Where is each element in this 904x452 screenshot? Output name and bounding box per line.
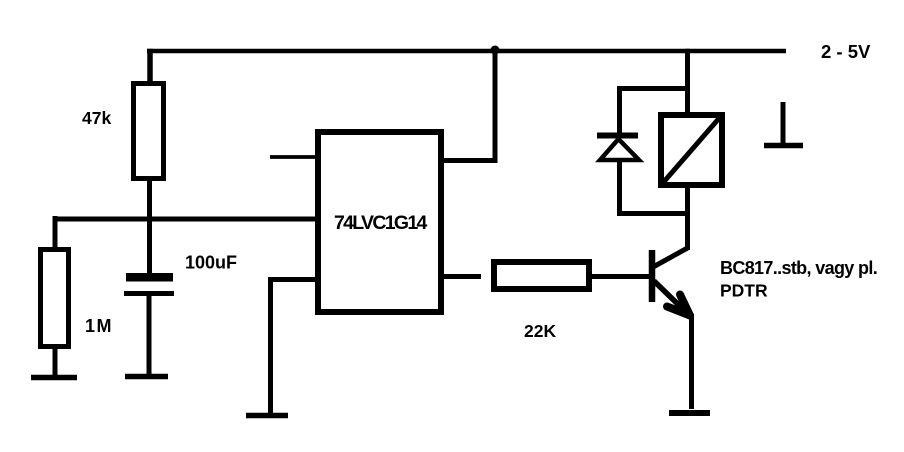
- wire: stub down to R2 top: [53, 216, 58, 250]
- net label 2 - 5V: [821, 41, 871, 62]
- wire: horizontal net from R2 top to IC pin 2: [53, 217, 316, 222]
- wire: relay K1 bottom down to Q1 collector: [685, 186, 690, 250]
- label BC817: [720, 258, 877, 301]
- wire: U1 pin 1 stub (top left): [270, 155, 316, 159]
- svg-text:1M: 1M: [85, 316, 113, 336]
- ground: below R2: [31, 375, 77, 381]
- relay K1 body with diagonal: [661, 115, 722, 185]
- transistor Q1 base bar: [649, 250, 656, 302]
- op-amp U1 74LVC1G14 body: [318, 132, 441, 312]
- ground: floating reference top right: [764, 102, 803, 146]
- capacitor C1 bottom plate: [124, 291, 174, 296]
- wire: rail down to relay K1 top: [685, 49, 690, 114]
- wire: U1 output pin (bottom right): [443, 274, 481, 279]
- svg-text:BC817..stb, vagy pl.: BC817..stb, vagy pl.: [720, 258, 877, 278]
- ground: U1 pin 3: [246, 413, 288, 419]
- wire: diode branch bottom horizontal: [617, 211, 690, 216]
- resistor R1 47k body: [134, 84, 164, 179]
- svg-text:74LVC1G14: 74LVC1G14: [334, 212, 428, 234]
- ground: below C1: [125, 374, 168, 380]
- value label 47k: [82, 108, 111, 128]
- resistor R2 1M body: [41, 250, 69, 347]
- value label 22K: [524, 321, 556, 341]
- svg-text:47k: 47k: [82, 108, 111, 128]
- wire: U1 Vcc pin (top right) up to rail: [443, 49, 495, 161]
- svg-text:2 - 5V: 2 - 5V: [821, 41, 871, 62]
- transistor Q1 emitter diagonal with arrow: [654, 281, 690, 316]
- value label 100uF: [185, 253, 237, 273]
- svg-text:100uF: 100uF: [185, 253, 237, 273]
- wire: R1 bottom down through node to capacitor top: [147, 178, 152, 275]
- wire: diode branch top horizontal: [617, 86, 688, 91]
- ground: Q1 emitter: [669, 410, 710, 416]
- wire: R3 to Q1 base: [592, 274, 650, 279]
- capacitor C1 top plate (thick): [126, 273, 173, 282]
- wire: Q1 emitter lead down: [689, 317, 694, 409]
- svg-text:PDTR: PDTR: [720, 281, 768, 301]
- wire: C1 bottom lead: [147, 296, 152, 374]
- diode D1 triangle: [600, 139, 639, 160]
- resistor R3 22K body: [494, 262, 589, 289]
- transistor Q1 collector diagonal: [654, 248, 688, 267]
- wire: R2 bottom lead: [53, 346, 58, 377]
- node: junction dot on rail at x=495: [491, 46, 500, 55]
- diode D1 cathode bar: [597, 133, 638, 139]
- wire: rail down to R1 top: [147, 49, 153, 83]
- wire: diode D1 top lead: [617, 86, 622, 135]
- value label 74LVC1G14: [334, 212, 428, 234]
- wire: top supply rail: [147, 49, 786, 54]
- svg-text:22K: 22K: [524, 321, 556, 341]
- value label 1M: [85, 316, 113, 336]
- wire: diode D1 bottom lead: [617, 160, 622, 216]
- wire: U1 pin 3 (bottom left) to ground: [271, 280, 317, 414]
